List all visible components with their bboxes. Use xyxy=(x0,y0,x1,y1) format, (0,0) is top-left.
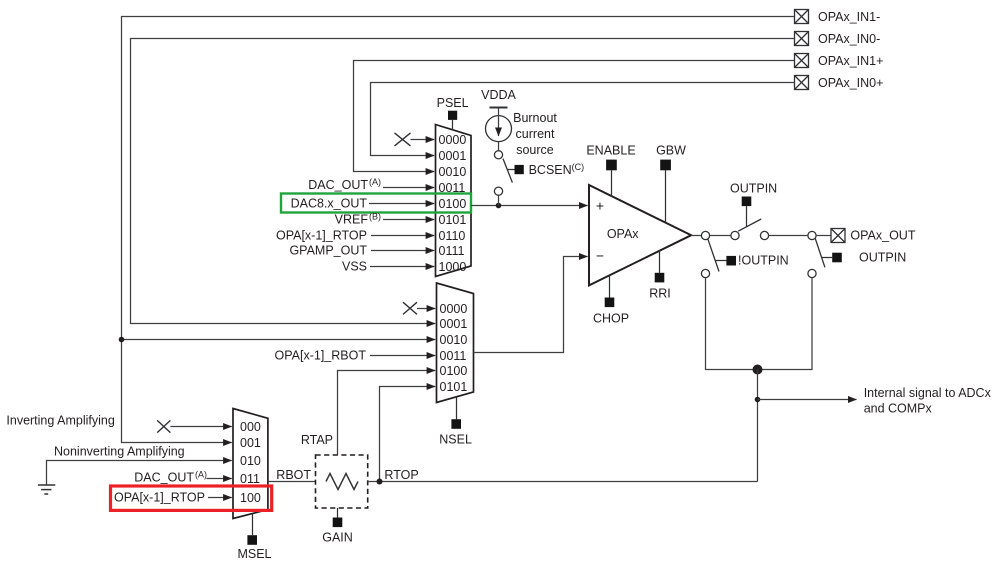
svg-text:DAC_OUT: DAC_OUT xyxy=(308,178,368,192)
svg-text:source: source xyxy=(516,143,554,157)
CHOP control stem xyxy=(609,275,611,298)
wire DAC_OUT to MSEL 011 xyxy=(207,478,232,480)
wire GPAMP_OUT to PSEL 0111 xyxy=(371,250,434,252)
svg-text:1000: 1000 xyxy=(439,260,467,274)
wire OPAx_IN0- to NSEL 0001 xyxy=(131,39,795,324)
switch blade OUTPIN right xyxy=(815,239,825,268)
wire branch IN1- to NSEL 0010 xyxy=(122,339,436,341)
svg-text:CHOP: CHOP xyxy=(593,312,629,326)
svg-text:0010: 0010 xyxy=(439,165,467,179)
wire OPA[x-1]_RTOP to PSEL 0110 xyxy=(371,235,434,237)
svg-text:OPAx_IN1-: OPAx_IN1- xyxy=(818,10,880,24)
pin pad OPAx_IN0+ xyxy=(795,76,809,90)
mux PSEL body xyxy=(436,125,472,277)
svg-text:0110: 0110 xyxy=(439,229,466,243)
wire MSEL output RBOT xyxy=(268,481,316,483)
svg-text:OPAx_IN0+: OPAx_IN0+ xyxy=(818,76,883,90)
svg-text:MSEL: MSEL xyxy=(237,547,271,561)
mux MSEL body xyxy=(233,409,268,519)
svg-text:OPA[x-1]_RTOP: OPA[x-1]_RTOP xyxy=(276,228,367,242)
wire junction to BCSEN lower contact xyxy=(498,195,500,205)
GBW control square xyxy=(660,160,671,171)
svg-text:OUTPIN: OUTPIN xyxy=(730,182,777,196)
svg-text:Inverting Amplifying: Inverting Amplifying xyxy=(6,414,114,428)
wire PSEL output to op-amp plus input xyxy=(471,205,588,207)
switch contact circle F xyxy=(808,269,816,277)
switch contact circle B xyxy=(731,231,739,239)
wire NSEL output to op-amp minus xyxy=(474,257,588,353)
svg-text:(B): (B) xyxy=(369,211,381,221)
burnout current source circle xyxy=(486,116,512,142)
OUTPIN top control square xyxy=(742,197,752,207)
svg-text:NSEL: NSEL xyxy=(439,433,472,447)
svg-text:000: 000 xyxy=(240,420,261,434)
svg-text:and COMPx: and COMPx xyxy=(864,401,933,415)
svg-text:+: + xyxy=(596,198,604,214)
wire current source to upper contact xyxy=(498,142,500,151)
wire RTOP to NSEL 0101 xyxy=(380,387,436,482)
mux NSEL body xyxy=(437,283,474,403)
wire X to NSEL 0000 xyxy=(417,308,435,310)
svg-text:0100: 0100 xyxy=(440,364,468,378)
wire D to pad OPAx_OUT xyxy=(816,235,831,237)
svg-text:VSS: VSS xyxy=(342,259,367,273)
svg-text:0101: 0101 xyxy=(439,213,467,227)
junction dot internal signal xyxy=(755,397,761,403)
GAIN control stem xyxy=(337,508,339,518)
wire bus down to RTOP line xyxy=(757,370,759,482)
pin pad OPAx_OUT xyxy=(831,229,845,243)
wire X to MSEL 000 xyxy=(170,426,231,428)
pin pad OPAx_IN1+ xyxy=(795,54,809,68)
wire ground to MSEL 010 xyxy=(47,461,232,485)
svg-text:0111: 0111 xyxy=(439,244,465,258)
svg-text:011: 011 xyxy=(240,472,260,486)
svg-text:OUTPIN: OUTPIN xyxy=(859,251,906,265)
RRI control stem xyxy=(659,250,661,273)
wire OPAx_IN1- to NSEL 0010 / MSEL 001 xyxy=(122,17,795,443)
svg-text:OPA[x-1]_RTOP: OPA[x-1]_RTOP xyxy=(114,490,205,504)
switch blade BCSEN xyxy=(503,159,512,183)
RRI control square xyxy=(655,273,665,283)
svg-text:0010: 0010 xyxy=(440,333,468,347)
gain resistor dashed box xyxy=(316,455,368,508)
MSEL control square xyxy=(247,535,257,545)
svg-text:BCSEN(C): BCSEN(C) xyxy=(529,162,585,177)
svg-text:(A): (A) xyxy=(195,469,207,479)
svg-text:RTOP: RTOP xyxy=(384,468,418,482)
svg-text:GAIN: GAIN xyxy=(322,531,353,545)
resistor zigzag xyxy=(326,474,358,490)
wire blade to OUTPIN right square xyxy=(822,257,833,259)
switch contact circle BCSEN lower xyxy=(494,187,502,195)
wire blade to !OUTPIN square xyxy=(715,260,726,262)
svg-text:OPAx_IN1+: OPAx_IN1+ xyxy=(818,54,883,68)
svg-text:ENABLE: ENABLE xyxy=(586,144,635,158)
NSEL control stem xyxy=(456,397,458,419)
control square BCSEN xyxy=(515,165,524,174)
switch blade OUTPIN top xyxy=(738,219,761,231)
PSEL control stem xyxy=(452,120,454,130)
wire DAC_OUT to PSEL 0011 xyxy=(383,187,434,189)
svg-text:OPAx_OUT: OPAx_OUT xyxy=(850,229,915,243)
ENABLE control stem xyxy=(611,170,613,197)
svg-text:Burnout: Burnout xyxy=(513,111,557,125)
wire arrow internal signal xyxy=(758,399,857,401)
svg-text:GBW: GBW xyxy=(656,144,686,158)
switch contact circle C xyxy=(760,231,768,239)
svg-text:OPAx_IN0-: OPAx_IN0- xyxy=(818,32,880,46)
highlight red box OPA[x-1]_RTOP row xyxy=(111,486,272,510)
NSEL control square xyxy=(451,419,461,429)
GAIN control square xyxy=(333,518,343,528)
svg-text:Noninverting Amplifying: Noninverting Amplifying xyxy=(54,445,185,459)
svg-text:−: − xyxy=(596,248,604,264)
wire blade to BCSEN square xyxy=(507,169,515,171)
svg-text:Internal signal to ADCx: Internal signal to ADCx xyxy=(864,386,992,400)
switch contact circle A xyxy=(701,231,709,239)
svg-text:DAC8.x_OUT: DAC8.x_OUT xyxy=(291,196,368,210)
ground symbol xyxy=(38,485,55,494)
wire RTAP to NSEL 0100 xyxy=(338,371,436,456)
wire A to B xyxy=(710,235,731,237)
svg-text:0001: 0001 xyxy=(439,149,467,163)
svg-text:!OUTPIN: !OUTPIN xyxy=(738,254,789,268)
svg-text:0101: 0101 xyxy=(440,380,468,394)
junction dot plus wire xyxy=(496,203,502,209)
svg-text:0000: 0000 xyxy=(439,133,467,147)
wire X to PSEL 0000 xyxy=(411,139,435,141)
wire OPA[x-1]_RTOP to MSEL 100 xyxy=(208,497,232,499)
mux MSEL row labels xyxy=(240,420,261,505)
wire OPAx_IN1+ to PSEL 0010 xyxy=(354,61,795,172)
wire C to D xyxy=(769,235,808,237)
wire OPA[x-1]_RBOT to NSEL 0011 xyxy=(370,355,435,357)
svg-text:0001: 0001 xyxy=(440,317,468,331)
switch contact circle BCSEN upper xyxy=(494,151,502,159)
wire VREF to PSEL 0101 xyxy=(383,219,434,221)
PSEL control square xyxy=(448,111,457,120)
OUTPIN top control stem xyxy=(746,206,748,227)
switch contact circle E xyxy=(701,269,709,277)
svg-text:VDDA: VDDA xyxy=(481,88,516,102)
svg-text:RTAP: RTAP xyxy=(301,433,333,447)
mux PSEL row labels xyxy=(439,133,467,274)
mux NSEL row labels xyxy=(440,302,468,394)
wire OPAx_IN0+ to PSEL 0001 xyxy=(371,83,795,156)
svg-text:100: 100 xyxy=(240,491,261,505)
svg-text:GPAMP_OUT: GPAMP_OUT xyxy=(289,243,367,257)
svg-text:DAC_OUT: DAC_OUT xyxy=(134,470,194,484)
pin pad OPAx_IN1- xyxy=(795,10,809,24)
GBW control stem xyxy=(665,170,667,223)
switch blade !OUTPIN xyxy=(708,239,719,272)
wire VSS to PSEL 1000 xyxy=(370,266,434,268)
switch contact circle D xyxy=(808,231,816,239)
svg-text:010: 010 xyxy=(240,454,261,468)
svg-text:0100: 0100 xyxy=(439,197,467,211)
svg-text:RBOT: RBOT xyxy=(276,468,311,482)
no-connect X NSEL 0000 xyxy=(403,302,417,314)
op-amp OPAx triangle xyxy=(589,185,691,285)
current source arrow xyxy=(498,107,500,136)
svg-text:OPAx: OPAx xyxy=(607,227,639,241)
svg-text:001: 001 xyxy=(240,436,261,450)
svg-text:current: current xyxy=(516,127,555,141)
ENABLE control square xyxy=(606,160,617,171)
no-connect X MSEL 000 xyxy=(157,420,170,432)
no-connect X PSEL 0000 xyxy=(395,133,411,146)
control square !OUTPIN xyxy=(726,256,736,266)
svg-text:OPA[x-1]_RBOT: OPA[x-1]_RBOT xyxy=(275,348,367,362)
pin pad OPAx_IN0- xyxy=(795,32,809,46)
junction dot IN1- branch xyxy=(119,337,125,343)
wire RTOP line xyxy=(368,481,758,483)
wire DAC8.x_OUT to PSEL 0100 xyxy=(369,203,434,205)
VDDA supply bar xyxy=(490,107,508,109)
svg-text:0000: 0000 xyxy=(440,302,468,316)
junction dot bus xyxy=(753,365,763,375)
wire E F down to bus xyxy=(706,278,813,370)
CHOP control square xyxy=(605,298,615,308)
highlight green box DAC8.x_OUT row xyxy=(281,194,471,213)
wire op-amp output to contact A xyxy=(691,235,701,237)
svg-text:RRI: RRI xyxy=(649,286,671,300)
junction dot RTOP xyxy=(377,479,383,485)
MSEL control stem xyxy=(252,514,254,535)
control square OUTPIN right xyxy=(832,253,842,263)
svg-text:VREF: VREF xyxy=(335,212,369,226)
svg-text:(A): (A) xyxy=(369,177,381,187)
svg-text:PSEL: PSEL xyxy=(437,96,469,110)
svg-text:0011: 0011 xyxy=(440,349,467,363)
